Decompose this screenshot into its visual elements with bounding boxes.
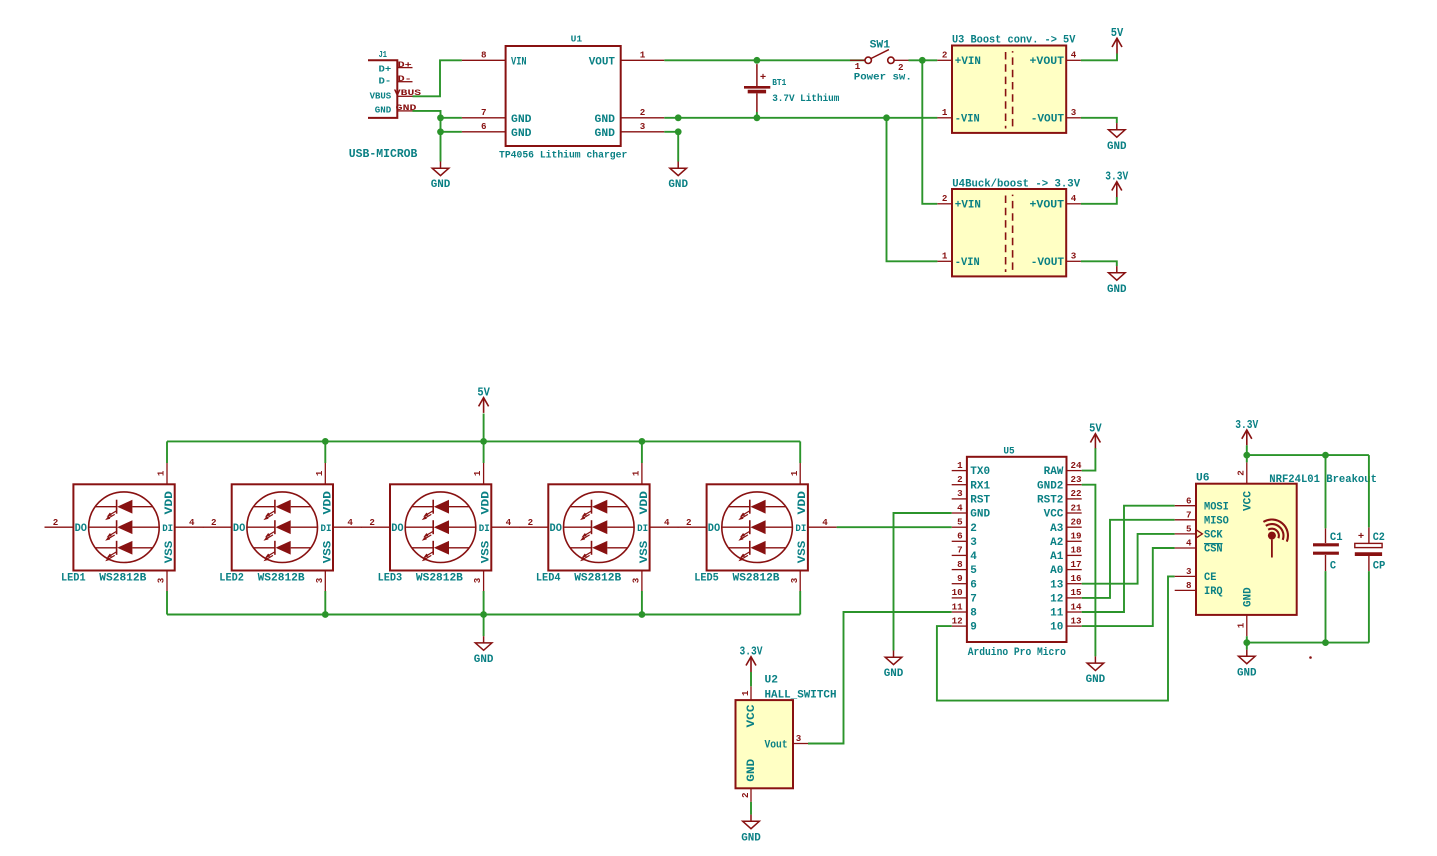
power 5V <box>1111 26 1124 53</box>
power 3.3V <box>1235 418 1259 445</box>
junction battery plus <box>754 57 761 64</box>
ground below U5 GND2 <box>1086 656 1106 686</box>
pin 8 of U6 (IRQ) <box>1175 580 1223 598</box>
svg-text:TP4056 Lithium charger: TP4056 Lithium charger <box>499 149 627 161</box>
wire U3 +VOUT to 5V <box>1081 54 1117 61</box>
pin 16 of U5 (13) <box>1050 573 1081 591</box>
pin 2 (DO) of LED2 <box>203 517 232 528</box>
svg-text:VSS: VSS <box>164 540 176 563</box>
svg-text:GND: GND <box>375 105 392 116</box>
svg-text:2: 2 <box>53 517 59 528</box>
junction GND rail <box>675 114 682 121</box>
svg-text:3: 3 <box>640 121 646 132</box>
svg-text:4: 4 <box>506 517 512 528</box>
pin 3 (VSS) of LED4 <box>631 571 642 592</box>
connector J1 USB-MICROB <box>349 49 418 161</box>
IC U5 Arduino Pro Micro <box>967 445 1067 659</box>
svg-text:4: 4 <box>1186 538 1192 549</box>
pin 2 of U1 <box>621 107 665 118</box>
junction 5V rail <box>322 438 329 445</box>
svg-text:LED4: LED4 <box>536 572 561 584</box>
wire VDD riser LED1 <box>166 441 168 463</box>
svg-text:MOSI: MOSI <box>1204 501 1229 513</box>
svg-text:4: 4 <box>822 517 828 528</box>
svg-text:DI: DI <box>795 524 806 535</box>
svg-text:3: 3 <box>796 733 802 744</box>
svg-text:+: + <box>760 72 766 84</box>
svg-text:GND2: GND2 <box>1037 480 1063 492</box>
svg-text:D-: D- <box>398 75 412 84</box>
pin 4 of U3 (+VOUT) <box>1066 50 1081 61</box>
pin VBUS of J1 <box>394 89 421 98</box>
svg-text:1: 1 <box>957 460 963 471</box>
junction GND rail <box>322 611 329 618</box>
svg-text:-VIN: -VIN <box>955 257 980 269</box>
pin 2 of U3 (+VIN) <box>937 50 952 61</box>
svg-text:CP: CP <box>1373 561 1386 573</box>
svg-text:2: 2 <box>528 517 534 528</box>
pin D+ of J1 <box>397 61 412 70</box>
svg-text:18: 18 <box>1071 545 1083 556</box>
junction GND rail <box>480 611 487 618</box>
svg-text:3: 3 <box>314 577 325 583</box>
wire GND2 down <box>1082 485 1096 657</box>
svg-text:A3: A3 <box>1050 523 1063 535</box>
pin 17 of U5 (A0) <box>1050 559 1081 577</box>
junction 5V rail <box>639 438 646 445</box>
svg-text:VDD: VDD <box>481 491 493 515</box>
pin 4 (DI) of LED2 <box>333 517 362 528</box>
ground below LED rail <box>474 636 494 666</box>
svg-text:WS2812B: WS2812B <box>258 572 305 584</box>
wire U1 pin3 to ground <box>664 132 678 162</box>
svg-text:2: 2 <box>369 517 375 528</box>
svg-text:1: 1 <box>740 690 751 696</box>
IC U6 NRF24L01 Breakout <box>1196 472 1377 615</box>
pin 12 of U5 (9) <box>952 615 977 633</box>
svg-text:4: 4 <box>189 517 195 528</box>
svg-text:7: 7 <box>481 107 487 118</box>
svg-text:14: 14 <box>1071 601 1083 612</box>
svg-text:3.7V Lithium: 3.7V Lithium <box>772 93 839 105</box>
wire battery minus <box>756 112 758 118</box>
wire to ground U6 <box>1246 643 1248 650</box>
svg-text:WS2812B: WS2812B <box>99 572 146 584</box>
svg-text:3: 3 <box>156 577 167 583</box>
svg-text:+VIN: +VIN <box>955 200 981 212</box>
pin 2 (DO) of LED3 <box>361 517 390 528</box>
IC U1 TP4056 Lithium charger <box>499 34 627 162</box>
pin 1 of U2 (VCC) <box>740 686 751 700</box>
svg-text:VCC: VCC <box>1044 509 1064 521</box>
pin 4 of U4 (+VOUT) <box>1066 193 1081 204</box>
svg-text:13: 13 <box>1071 615 1083 626</box>
IC U3 Boost converter <box>952 35 1076 133</box>
svg-text:1: 1 <box>789 470 800 476</box>
svg-text:RST2: RST2 <box>1037 495 1063 507</box>
power 5V <box>1089 422 1102 449</box>
svg-text:5: 5 <box>1186 524 1192 535</box>
svg-text:GND: GND <box>431 179 451 191</box>
svg-text:GND: GND <box>474 654 494 666</box>
ground below U6 <box>1237 650 1257 680</box>
ground below U1 <box>668 162 688 192</box>
pin 19 of U5 (A2) <box>1050 531 1081 549</box>
pin 22 of U5 (RST2) <box>1037 488 1082 506</box>
pin 6 of U1 <box>462 121 506 132</box>
wire 3.3V to C1 <box>1325 455 1327 528</box>
svg-text:1: 1 <box>942 107 948 118</box>
svg-text:C: C <box>1330 561 1336 573</box>
svg-text:U6: U6 <box>1196 472 1210 484</box>
battery BT1 3.7V Lithium <box>744 64 839 112</box>
pin 3 (VSS) of LED2 <box>314 571 325 592</box>
pin 6 of U5 (3) <box>952 531 977 549</box>
svg-text:TX0: TX0 <box>970 466 990 478</box>
pin 7 of U1 <box>462 107 506 118</box>
pin 3 of U1 <box>621 121 665 132</box>
svg-text:3: 3 <box>970 537 977 549</box>
svg-text:IRQ: IRQ <box>1204 586 1223 598</box>
pin 4 (DI) of LED4 <box>650 517 679 528</box>
svg-text:3: 3 <box>472 577 483 583</box>
junction C1 bottom <box>1322 639 1329 646</box>
pin 4 (DI) of LED5 <box>808 517 837 528</box>
svg-text:RAW: RAW <box>1044 466 1064 478</box>
ground at U3 output <box>1107 123 1127 153</box>
svg-text:4: 4 <box>1071 50 1077 61</box>
svg-text:2: 2 <box>898 62 904 73</box>
pin 5 of U5 (2) <box>952 517 977 535</box>
svg-text:D-: D- <box>379 76 392 87</box>
LED LED3 WS2812B <box>378 484 493 584</box>
svg-text:19: 19 <box>1071 531 1082 542</box>
svg-text:GND: GND <box>884 668 904 680</box>
svg-text:1: 1 <box>631 470 642 476</box>
svg-text:LED2: LED2 <box>219 572 244 584</box>
svg-text:C1: C1 <box>1330 532 1343 544</box>
svg-text:9: 9 <box>970 622 977 634</box>
svg-text:+VIN: +VIN <box>955 56 981 68</box>
svg-text:Arduino Pro Micro: Arduino Pro Micro <box>968 647 1067 659</box>
pin 7 of U6 (MISO) <box>1175 509 1229 527</box>
junction battery minus <box>754 114 761 121</box>
pin GND of J1 <box>396 104 417 113</box>
svg-text:1: 1 <box>942 251 948 262</box>
svg-text:8: 8 <box>970 608 977 620</box>
wire U5 pin12 to U6 CE <box>937 576 1175 700</box>
wire 5V rail above LEDs <box>167 440 800 442</box>
power 5V <box>477 386 490 413</box>
svg-text:A0: A0 <box>1050 565 1063 577</box>
pin 23 of U5 (GND2) <box>1037 474 1082 492</box>
svg-text:5V: 5V <box>1111 26 1124 40</box>
svg-text:DI: DI <box>321 524 332 535</box>
svg-text:8: 8 <box>957 559 963 570</box>
wire VSS riser LED3 <box>483 591 485 615</box>
svg-text:3: 3 <box>789 577 800 583</box>
svg-text:CSN: CSN <box>1204 544 1223 556</box>
svg-text:-VOUT: -VOUT <box>1031 114 1065 126</box>
svg-text:U2: U2 <box>765 674 779 686</box>
svg-text:DO: DO <box>391 523 404 535</box>
svg-text:VOUT: VOUT <box>589 56 616 68</box>
svg-text:SCK: SCK <box>1204 530 1223 542</box>
ground below U5 pin4 <box>884 651 904 681</box>
capacitor C2 polarized <box>1355 527 1386 572</box>
junction C1 top <box>1322 452 1329 459</box>
svg-text:3: 3 <box>1186 566 1192 577</box>
svg-text:13: 13 <box>1050 579 1063 591</box>
wire U5 pin16 to U6 SCK <box>1082 534 1175 584</box>
pin 10 of U5 (7) <box>952 587 977 605</box>
svg-text:GND: GND <box>511 114 532 126</box>
svg-text:3.3V: 3.3V <box>740 645 764 659</box>
svg-text:VBUS: VBUS <box>370 91 392 102</box>
svg-text:8: 8 <box>1186 580 1192 591</box>
pin 2 of U4 (+VIN) <box>937 193 952 204</box>
wire U5 pin13 to U6 CSN <box>1082 548 1175 626</box>
svg-text:LED3: LED3 <box>378 572 403 584</box>
svg-text:DO: DO <box>75 523 88 535</box>
pin 8 of U1 <box>462 50 506 61</box>
pin 2 (DO) of LED5 <box>678 517 707 528</box>
svg-text:3.3V: 3.3V <box>1235 418 1259 432</box>
svg-text:4: 4 <box>347 517 353 528</box>
pin 11 of U5 (8) <box>952 601 977 619</box>
wire U4 +VOUT to 3.3V <box>1081 197 1117 204</box>
svg-text:7: 7 <box>1186 509 1192 520</box>
svg-text:+VOUT: +VOUT <box>1030 200 1065 212</box>
junction GND rail <box>639 611 646 618</box>
pin 9 of U5 (6) <box>952 573 977 591</box>
svg-text:U1: U1 <box>571 34 583 45</box>
svg-text:GND: GND <box>1243 587 1255 607</box>
pin 1 (VDD) of LED4 <box>631 463 642 484</box>
pin 4 of U6 (CSN) <box>1175 538 1223 556</box>
svg-text:CE: CE <box>1204 572 1217 584</box>
svg-text:1: 1 <box>156 470 167 476</box>
svg-text:VSS: VSS <box>639 540 651 563</box>
wire U5 pin15 to U6 MISO <box>1082 520 1175 598</box>
svg-text:3: 3 <box>1071 251 1077 262</box>
svg-text:1: 1 <box>855 61 861 72</box>
pin 3 of U6 (CE) <box>1175 566 1217 584</box>
svg-text:3: 3 <box>1071 107 1077 118</box>
wire 3.3V to U6 VCC <box>1246 445 1248 462</box>
svg-text:VCC: VCC <box>746 704 758 727</box>
svg-text:12: 12 <box>1050 594 1063 606</box>
svg-text:WS2812B: WS2812B <box>733 572 780 584</box>
svg-text:VDD: VDD <box>164 491 176 515</box>
svg-text:16: 16 <box>1071 573 1082 584</box>
wire to U4 +VIN <box>922 60 937 204</box>
wire U6 GND down <box>1246 636 1248 642</box>
pin 1 (VDD) of LED3 <box>472 463 483 484</box>
wire GND rail <box>664 117 937 119</box>
svg-text:4: 4 <box>664 517 670 528</box>
pin 4 of U5 (GND) <box>952 502 990 520</box>
svg-text:GND: GND <box>595 128 616 140</box>
ground at U4 output <box>1107 266 1127 296</box>
svg-text:+VOUT: +VOUT <box>1030 56 1065 68</box>
pin 1 (VDD) of LED2 <box>314 463 325 484</box>
wire U5 GND pin4 down <box>894 513 952 651</box>
junction GND at J1 <box>437 114 444 121</box>
svg-text:2: 2 <box>970 523 977 535</box>
pin 2 (DO) of LED4 <box>519 517 548 528</box>
svg-text:GND: GND <box>970 509 990 521</box>
svg-text:LED1: LED1 <box>61 572 86 584</box>
svg-text:GND: GND <box>741 832 761 844</box>
svg-text:1: 1 <box>472 470 483 476</box>
capacitor C1 <box>1313 528 1343 572</box>
svg-text:4: 4 <box>957 502 963 513</box>
svg-text:1: 1 <box>1236 622 1247 628</box>
wire VDD riser LED5 <box>799 441 801 463</box>
svg-text:DI: DI <box>637 524 648 535</box>
wire VSS riser LED1 <box>166 591 168 615</box>
power 3.3V <box>1105 170 1129 197</box>
IC U2 HALL_SWITCH <box>736 674 837 788</box>
pin 1 of U1 <box>621 50 665 61</box>
pin 14 of U5 (11) <box>1050 601 1082 619</box>
junction switch output <box>919 57 926 64</box>
svg-text:11: 11 <box>1050 608 1063 620</box>
switch SW1 Power sw. <box>850 40 912 84</box>
svg-text:3: 3 <box>957 488 963 499</box>
pin 4 (DI) of LED1 <box>175 517 204 528</box>
LED LED2 WS2812B <box>219 484 334 584</box>
svg-text:RX1: RX1 <box>970 480 990 492</box>
pin 4 (DI) of LED3 <box>491 517 520 528</box>
svg-text:5V: 5V <box>477 386 490 400</box>
wire GND rail to caps <box>1247 642 1369 644</box>
pin 5 of U6 (SCK) <box>1175 524 1223 542</box>
wire VSS riser LED5 <box>799 591 801 615</box>
svg-text:Power sw.: Power sw. <box>854 73 912 84</box>
junction 5V rail <box>480 438 487 445</box>
svg-text:MISO: MISO <box>1204 516 1229 528</box>
svg-text:-VIN: -VIN <box>955 114 980 126</box>
pin D- of J1 <box>397 75 412 84</box>
svg-text:GND: GND <box>1086 674 1106 686</box>
wire VDD riser LED2 <box>324 441 326 463</box>
wire VBUS to U1 VIN <box>413 60 462 96</box>
svg-text:2: 2 <box>640 107 646 118</box>
svg-text:7: 7 <box>957 545 963 556</box>
wire VSS riser LED4 <box>641 591 643 615</box>
svg-text:A1: A1 <box>1050 551 1063 563</box>
svg-text:23: 23 <box>1071 474 1083 485</box>
svg-text:U3 Boost conv. -> 5V: U3 Boost conv. -> 5V <box>952 35 1076 47</box>
svg-text:2: 2 <box>957 474 963 485</box>
pin 24 of U5 (RAW) <box>1044 460 1082 478</box>
svg-text:7: 7 <box>970 594 977 606</box>
svg-text:LED5: LED5 <box>694 572 719 584</box>
wire U5 pin11 to hall switch Vout <box>808 612 952 744</box>
svg-text:DO: DO <box>233 523 246 535</box>
svg-text:VCC: VCC <box>1243 491 1255 511</box>
pin 20 of U5 (A3) <box>1050 517 1081 535</box>
pin 2 of U2 (GND) <box>740 788 751 802</box>
LED LED4 WS2812B <box>536 484 651 584</box>
svg-text:DO: DO <box>708 523 721 535</box>
pin 2 of U6 (VCC) <box>1236 462 1247 483</box>
junction 3.3V rail <box>1243 452 1250 459</box>
wire switch to U3 <box>909 59 938 61</box>
svg-text:6: 6 <box>1186 495 1192 506</box>
svg-text:1: 1 <box>640 50 646 61</box>
wire 3.3V to U2 VCC <box>750 672 752 686</box>
junction GND at J1 lower <box>437 128 444 135</box>
svg-text:21: 21 <box>1071 502 1083 513</box>
pin 6 of U6 (MOSI) <box>1175 495 1229 513</box>
svg-text:VDD: VDD <box>797 491 809 515</box>
wire 5V flag stem <box>483 414 485 442</box>
svg-text:HALL_SWITCH: HALL_SWITCH <box>765 689 837 701</box>
svg-text:VDD: VDD <box>639 491 651 515</box>
pin 1 of U6 (GND) <box>1236 615 1247 636</box>
svg-text:DO: DO <box>550 523 563 535</box>
pin 7 of U5 (4) <box>952 545 978 563</box>
svg-text:GND: GND <box>1237 667 1257 679</box>
wire U3 -VOUT to ground <box>1081 118 1117 123</box>
pin 1 of U3 (-VIN) <box>937 107 952 118</box>
pin 15 of U5 (12) <box>1050 587 1082 605</box>
svg-text:DI: DI <box>162 524 173 535</box>
svg-text:A2: A2 <box>1050 537 1063 549</box>
svg-text:GND: GND <box>746 758 758 781</box>
wire U4 -VOUT to ground <box>1081 261 1117 266</box>
wire GND drop <box>483 615 485 637</box>
svg-text:U5: U5 <box>1003 445 1014 457</box>
svg-text:VDD: VDD <box>322 491 334 515</box>
pin 3 of U4 (-VOUT) <box>1066 251 1081 262</box>
wire to U1 pin6 <box>441 131 462 133</box>
svg-text:Vout: Vout <box>765 739 788 751</box>
wire U1 VOUT to switch <box>664 59 865 61</box>
svg-text:15: 15 <box>1071 587 1083 598</box>
svg-text:GND: GND <box>668 179 688 191</box>
svg-text:5V: 5V <box>1089 422 1102 436</box>
wire 5V flag stem U5 <box>1094 448 1096 463</box>
wire J1 GND down <box>413 111 441 162</box>
pin 3 (VSS) of LED5 <box>789 571 800 592</box>
svg-text:3.3V: 3.3V <box>1105 170 1129 184</box>
svg-text:USB-MICROB: USB-MICROB <box>349 147 418 161</box>
svg-text:1: 1 <box>314 470 325 476</box>
svg-text:24: 24 <box>1071 460 1083 471</box>
svg-text:5: 5 <box>970 565 977 577</box>
pin 2 of U5 (RX1) <box>952 474 990 492</box>
LED LED5 WS2812B <box>694 484 809 584</box>
svg-text:6: 6 <box>970 579 977 591</box>
junction GND rail to U4 <box>883 114 890 121</box>
wire VDD riser LED3 <box>483 441 485 463</box>
svg-text:WS2812B: WS2812B <box>574 572 621 584</box>
svg-text:22: 22 <box>1071 488 1082 499</box>
svg-text:2: 2 <box>686 517 692 528</box>
wire 3.3V to C2 <box>1368 455 1370 527</box>
svg-text:VIN: VIN <box>511 56 527 68</box>
svg-text:C2: C2 <box>1373 532 1385 544</box>
svg-text:NRF24L01 Breakout: NRF24L01 Breakout <box>1269 474 1377 486</box>
pin 13 of U5 (10) <box>1050 615 1082 633</box>
pin 3 of U3 (-VOUT) <box>1066 107 1081 118</box>
wire to U1 pin7 <box>441 117 462 119</box>
svg-text:2: 2 <box>942 193 948 204</box>
